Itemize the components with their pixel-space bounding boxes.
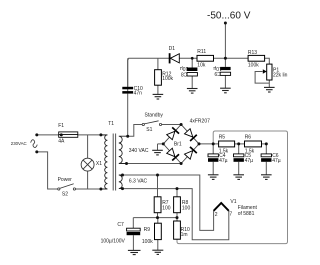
ground C9 xyxy=(220,88,231,93)
wire C10 to 340VAC top xyxy=(127,94,129,137)
node 340VAC top xyxy=(126,135,129,138)
lamp X1 xyxy=(81,158,94,171)
node C8 rail xyxy=(191,57,194,60)
ground R9 xyxy=(152,250,163,254)
resistor R7 xyxy=(154,197,161,213)
ground C4 xyxy=(208,175,219,180)
svg-text:S1: S1 xyxy=(146,127,152,133)
node fuse left xyxy=(60,133,63,136)
transformer 340VAC winding xyxy=(119,136,128,163)
potentiometer P1 xyxy=(263,64,272,80)
svg-text:47n: 47n xyxy=(134,90,143,96)
ground P1 xyxy=(264,87,275,92)
capacitor C7 xyxy=(127,228,141,235)
svg-text:X1: X1 xyxy=(96,161,102,167)
svg-text:V1: V1 xyxy=(230,199,236,205)
svg-text:R9: R9 xyxy=(144,227,151,233)
capacitor C8 xyxy=(187,68,197,77)
bridge rectifier Br1 diamond edges xyxy=(163,125,199,164)
node T1 primary bottom xyxy=(99,188,102,191)
resistor R13 xyxy=(248,55,265,61)
wire 6.3 top line to pin 2 xyxy=(123,175,214,230)
svg-text:47µ: 47µ xyxy=(245,158,254,164)
svg-text:10k: 10k xyxy=(197,62,206,68)
capacitor C9 xyxy=(220,67,230,75)
svg-text:100k: 100k xyxy=(248,63,259,69)
svg-text:Br1: Br1 xyxy=(174,142,182,148)
ground bridge xyxy=(152,150,163,155)
resistor R5 xyxy=(219,141,235,147)
capacitor C10 xyxy=(122,87,133,94)
wire R6 to C6 xyxy=(262,143,267,145)
svg-text:-50...60 V: -50...60 V xyxy=(207,11,251,22)
svg-text:7: 7 xyxy=(229,212,232,218)
wire 6.3 bottom line to pin 7 xyxy=(123,189,229,240)
resistor R10 xyxy=(174,221,181,239)
svg-text:100µ/100V: 100µ/100V xyxy=(101,238,126,244)
resistor R11 xyxy=(197,55,214,61)
switch S2 xyxy=(58,184,76,190)
svg-text:D1: D1 xyxy=(169,46,176,52)
label C8 (rotated) xyxy=(180,65,189,76)
svg-text:1m: 1m xyxy=(181,232,188,238)
node B+ C6 xyxy=(265,142,268,145)
svg-text:4xFR207: 4xFR207 xyxy=(190,119,211,125)
ground C8 xyxy=(187,89,198,94)
transformer T1 primary winding xyxy=(101,135,108,189)
ground C6 xyxy=(261,175,272,180)
node output junction xyxy=(224,57,227,60)
wire S2 to T1 primary bottom xyxy=(76,188,108,190)
node R8 bottom xyxy=(176,216,179,219)
wire R10 top stub xyxy=(176,218,178,221)
wire D1 to R11 xyxy=(179,57,197,59)
svg-text:of 5881: of 5881 xyxy=(238,211,255,217)
wire R11 to R13 xyxy=(214,57,249,59)
resistor R6 xyxy=(245,141,262,147)
svg-text:2: 2 xyxy=(215,212,218,218)
wire C10 upper stub xyxy=(127,58,129,87)
svg-text:100k: 100k xyxy=(162,76,173,82)
svg-text:Standby: Standby xyxy=(145,113,164,119)
capacitor C6 xyxy=(261,154,271,162)
svg-text:100: 100 xyxy=(182,205,191,211)
svg-text:47µ: 47µ xyxy=(219,158,228,164)
svg-text:4A: 4A xyxy=(58,138,65,144)
wire 340 bottom to bridge bottom xyxy=(123,163,182,165)
wire R13 to P1 top xyxy=(265,58,270,64)
svg-text:R11: R11 xyxy=(197,49,206,55)
wire P1 bottom stub xyxy=(268,80,270,87)
svg-text:100: 100 xyxy=(162,205,171,211)
node bridge left xyxy=(162,142,165,145)
wire jog 340 top to S1 xyxy=(128,125,143,137)
svg-text:C7: C7 xyxy=(117,222,124,228)
node 340VAC bottom xyxy=(125,162,128,165)
node R8 top tap xyxy=(176,187,179,190)
bridge diode upper-right xyxy=(185,129,197,141)
wire C9 stubs xyxy=(224,58,226,67)
wire heater junction line xyxy=(133,217,177,219)
wire R5 to R6 xyxy=(235,143,245,145)
wire P1 wiper loop xyxy=(255,72,269,84)
wire lamp branch bottom xyxy=(87,171,89,189)
wire R8 stubs xyxy=(176,189,178,197)
svg-text:Power: Power xyxy=(58,177,73,183)
tube V1 filament xyxy=(214,203,229,211)
wire C6 stubs xyxy=(265,144,267,154)
wire heater elevation loop (R10 to B+ rail) xyxy=(177,131,288,244)
svg-text:230VAC: 230VAC xyxy=(11,141,27,146)
ground C7 xyxy=(128,250,141,254)
node B+ C4 xyxy=(212,142,215,145)
node R7 top tap xyxy=(156,174,159,177)
svg-text:10µ: 10µ xyxy=(180,65,189,71)
wire mains top: source to fuse xyxy=(37,134,59,136)
wire C8 stubs xyxy=(191,58,193,67)
svg-text:F1: F1 xyxy=(58,123,64,129)
diode D1 xyxy=(170,53,180,63)
svg-text:S2: S2 xyxy=(62,191,68,197)
resistor R8 xyxy=(174,197,181,213)
svg-text:R13: R13 xyxy=(248,50,257,56)
wire output -50V vertical xyxy=(224,23,226,58)
wire S1 to bridge top xyxy=(162,124,182,126)
svg-text:6.3 VAC: 6.3 VAC xyxy=(129,178,148,184)
ground R12 xyxy=(153,94,164,99)
label C9 (rotated) xyxy=(213,65,222,76)
svg-text:22k lin: 22k lin xyxy=(273,72,288,78)
node bridge bottom xyxy=(180,162,183,165)
wire R12 bottom stub xyxy=(157,85,159,94)
node mains upper xyxy=(35,133,38,136)
node bridge right xyxy=(198,142,201,145)
svg-text:R6: R6 xyxy=(245,134,252,140)
resistor R9 xyxy=(155,223,162,239)
wire C5 stubs xyxy=(238,144,240,154)
capacitor C5 xyxy=(234,154,244,162)
resistor R12 xyxy=(155,70,162,86)
svg-text:R5: R5 xyxy=(219,134,226,140)
node 6.3VAC bottom xyxy=(121,187,124,190)
wire R12 top stub xyxy=(157,58,159,69)
wire C7 stubs xyxy=(132,218,134,229)
svg-text:47µ: 47µ xyxy=(272,158,281,164)
wire fuse to T1 primary top xyxy=(78,134,108,136)
node B+ C5 xyxy=(237,142,240,145)
transformer core xyxy=(112,134,114,191)
svg-text:T1: T1 xyxy=(108,121,114,127)
transformer 6.3VAC winding xyxy=(119,175,123,189)
wire bridge right to B+ rail xyxy=(199,143,219,145)
bridge diode lower-left xyxy=(167,148,179,160)
wire R7 stubs xyxy=(157,175,159,197)
node bridge top xyxy=(180,123,183,126)
node R7 bottom xyxy=(156,216,159,219)
wire mains lower: source down to S2 xyxy=(37,152,58,189)
node mains lower xyxy=(35,150,38,153)
switch S1 xyxy=(142,121,161,126)
wire top rail left segment xyxy=(128,58,169,93)
bridge diode upper-left xyxy=(167,127,179,139)
capacitor C4 xyxy=(208,154,218,162)
node output terminal xyxy=(224,22,227,25)
svg-text:10µ: 10µ xyxy=(213,65,222,71)
svg-text:340 VAC: 340 VAC xyxy=(129,148,149,154)
node 6.3VAC top xyxy=(121,174,124,177)
wire bridge left to ground xyxy=(158,143,164,145)
wire C4 stubs xyxy=(212,144,214,154)
fuse F1 xyxy=(59,132,78,137)
svg-text:100k: 100k xyxy=(142,239,153,245)
wire lamp branch top xyxy=(87,135,89,158)
wire R9 stubs xyxy=(157,218,159,224)
AC source squiggle xyxy=(31,140,38,148)
bridge diode lower-right xyxy=(185,147,197,159)
node T1 primary top xyxy=(99,133,102,136)
ground C5 xyxy=(233,175,244,180)
